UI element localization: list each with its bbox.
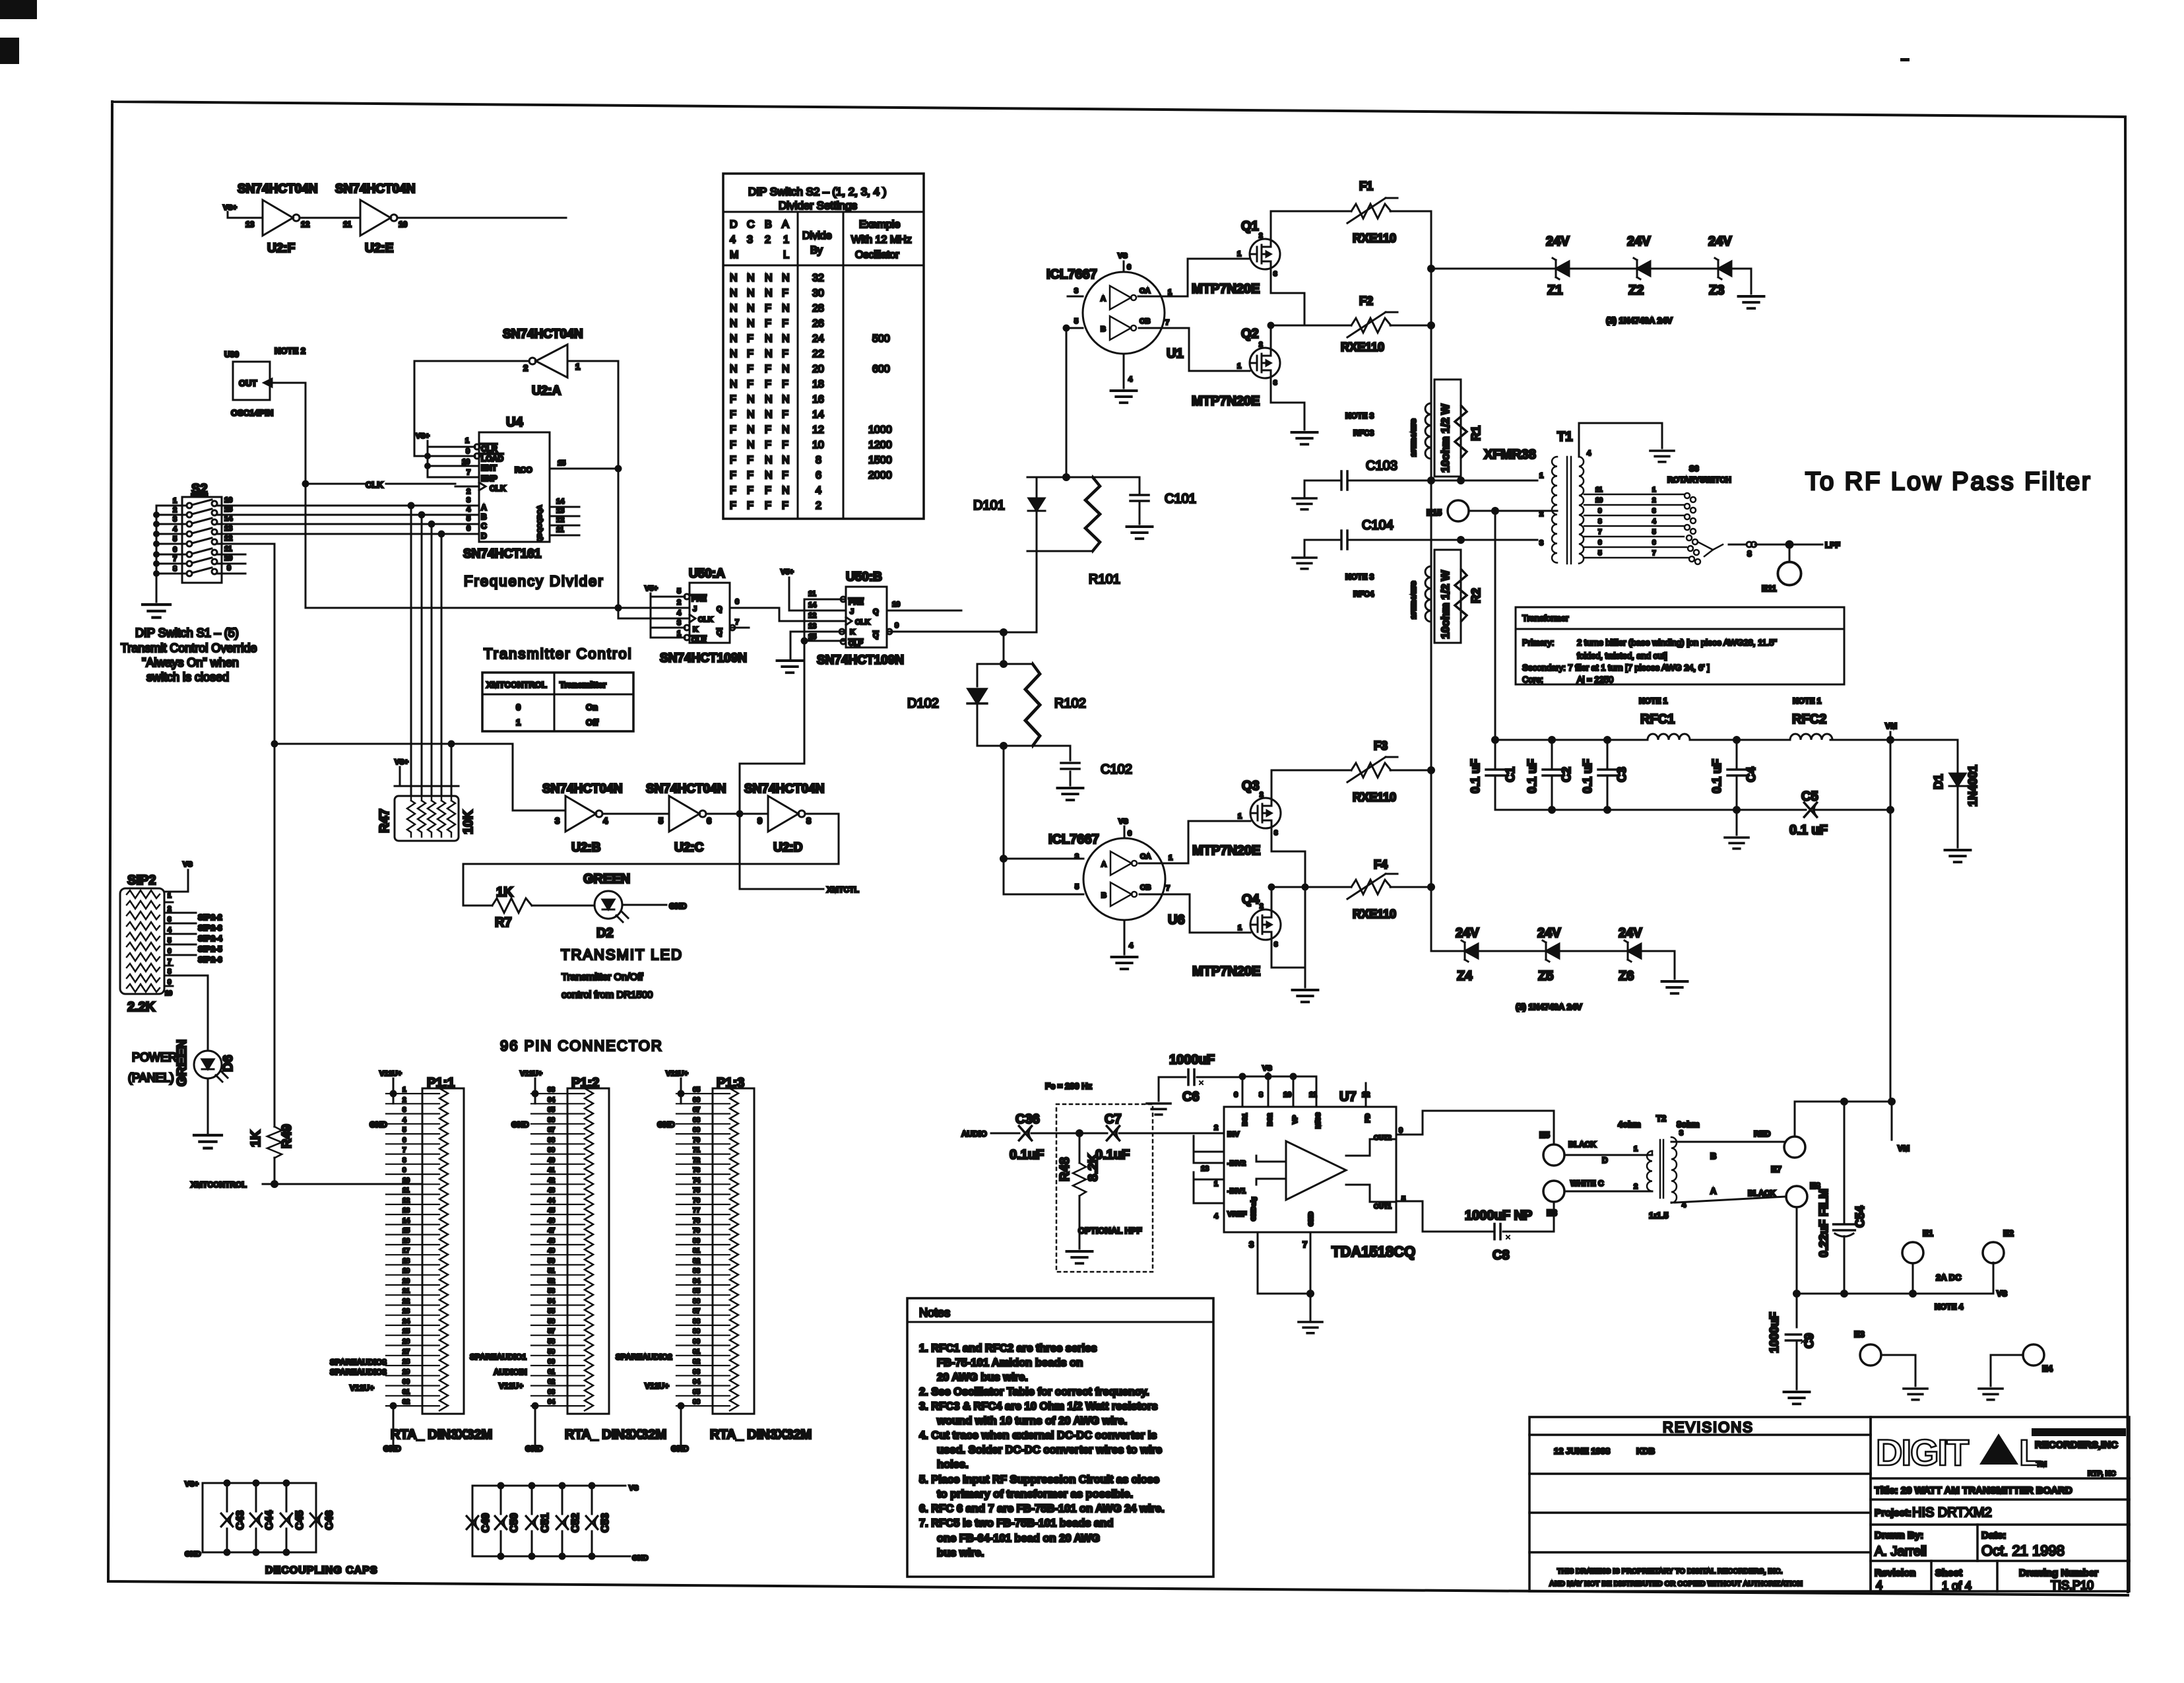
svg-text:3: 3 [1539,539,1543,547]
svg-text:19: 19 [402,1268,410,1275]
svg-text:Z5: Z5 [1538,969,1553,983]
svg-text:N: N [730,379,738,390]
svg-text:VREF: VREF [1227,1210,1247,1218]
svg-text:GNDs/g: GNDs/g [1250,1197,1258,1221]
svg-text:SPAREAUDIO3: SPAREAUDIO3 [330,1368,387,1377]
svg-text:16: 16 [224,496,232,504]
svg-text:90: 90 [693,1338,701,1346]
svg-text:1: 1 [783,234,789,246]
svg-text:SN74HCT04N: SN74HCT04N [542,782,622,796]
svg-text:FB-75-101 Amidon beads on: FB-75-101 Amidon beads on [937,1357,1083,1369]
svg-text:RXE110: RXE110 [1353,907,1396,921]
svg-text:J: J [693,605,697,613]
svg-text:15: 15 [224,506,232,513]
svg-text:4: 4 [1129,942,1134,950]
svg-text:14: 14 [812,409,824,420]
svg-text:R49: R49 [280,1124,294,1148]
svg-text:R47: R47 [377,808,392,833]
svg-text:holes.: holes. [937,1459,969,1470]
svg-text:V12U+: V12U+ [645,1381,669,1391]
svg-text:0: 0 [516,702,521,712]
svg-text:2 turns bifiler (base winding): 2 turns bifiler (base winding) [on piece… [1577,638,1777,647]
svg-text:9: 9 [227,564,231,572]
svg-text:6: 6 [402,1137,406,1144]
U4 ABCD pins [461,506,479,534]
svg-text:10ohm 1/2 W: 10ohm 1/2 W [1439,403,1452,473]
wire OSC out to CLK node [272,383,690,608]
svg-text:V12U+: V12U+ [499,1381,523,1391]
svg-text:U7: U7 [1339,1090,1357,1104]
zener string Z4 Z5 Z6 24V [1431,950,1675,952]
svg-text:12: 12 [808,612,816,620]
svg-text:1: 1 [1238,812,1242,820]
wire U2:A feedback from RCO [569,361,690,618]
svg-text:By: By [810,245,823,256]
svg-text:SIP2-3: SIP2-3 [198,923,222,933]
svg-text:79: 79 [693,1228,701,1235]
svg-text:A: A [481,503,487,512]
svg-text:4: 4 [1214,1212,1219,1220]
svg-text:24V: 24V [1546,234,1570,249]
svg-text:C46: C46 [324,1511,335,1530]
S2 left common bus to ground [156,506,158,602]
svg-text:36: 36 [548,1117,556,1124]
svg-text:F: F [747,364,754,375]
svg-text:A: A [782,219,789,230]
svg-text:C102: C102 [1101,762,1132,777]
svg-text:U30: U30 [224,350,239,359]
svg-text:F: F [747,455,754,466]
svg-text:(PANEL): (PANEL) [128,1071,174,1084]
svg-text:TIS.P10: TIS.P10 [2051,1579,2094,1592]
wire U2:A output to U4 LOAD [414,361,529,456]
svg-text:10: 10 [402,1177,410,1184]
svg-text:used. Solder DC-DC converter: used. Solder DC-DC converter wires to wi… [937,1444,1162,1456]
DIP table data rows [730,273,892,511]
svg-text:bus wire.: bus wire. [937,1547,984,1559]
svg-text:N: N [782,333,790,345]
svg-text:2: 2 [1259,232,1263,240]
svg-text:24V: 24V [1537,926,1561,940]
svg-text:NOTE 3: NOTE 3 [1345,411,1374,420]
U50:B outputs [887,610,1004,632]
svg-text:47: 47 [548,1228,556,1235]
svg-text:2: 2 [1652,497,1656,504]
svg-text:VS+: VS+ [185,1480,199,1488]
svg-text:RFC2: RFC2 [1792,712,1826,727]
svg-text:V12U+: V12U+ [666,1070,688,1078]
svg-text:control from DR1500: control from DR1500 [562,989,653,1001]
svg-text:46: 46 [548,1217,556,1224]
svg-text:Transmit Control Override: Transmit Control Override [121,642,257,655]
svg-text:T1: T1 [1557,430,1572,444]
svg-text:T2: T2 [1656,1113,1666,1123]
svg-text:N: N [765,455,773,466]
svg-text:29: 29 [402,1368,410,1375]
svg-text:4: 4 [402,1117,406,1124]
svg-text:Secondary: 7 filer at 1 turn [: Secondary: 7 filer at 1 turn [7 pieces A… [1522,663,1710,673]
svg-text:9: 9 [466,447,470,455]
svg-text:9: 9 [757,816,762,826]
svg-text:GND: GND [525,1444,543,1453]
svg-text:61: 61 [548,1368,556,1375]
title block [1871,1417,2129,1591]
svg-text:OA: OA [1140,853,1151,861]
svg-text:1: 1 [173,497,177,505]
svg-text:U4: U4 [506,415,523,430]
svg-text:one FB-64-101 bead on 20 AWG: one FB-64-101 bead on 20 AWG [937,1533,1100,1544]
svg-text:72: 72 [693,1157,701,1164]
svg-text:Transmitter Control: Transmitter Control [484,645,632,662]
svg-text:A: A [1101,861,1107,869]
VS output rail [1797,1263,1993,1294]
svg-text:45: 45 [548,1207,556,1214]
svg-text:VS: VS [183,861,193,869]
svg-text:V5+: V5+ [645,585,658,593]
svg-text:E1: E1 [1923,1228,1933,1238]
svg-text:Q: Q [873,608,879,616]
svg-text:F3: F3 [1374,739,1388,752]
svg-text:GND: GND [671,1444,689,1453]
ground under S2 [143,605,170,618]
svg-text:N: N [765,348,773,360]
svg-text:11: 11 [808,590,816,598]
svg-text:F: F [782,348,788,360]
svg-text:F: F [747,500,754,511]
wire VS+ into U4 control pins [428,441,462,477]
transformer spec table [1516,607,1844,684]
svg-text:C2: C2 [1560,767,1573,782]
svg-text:1. RFC1 and RFC2 are three se: 1. RFC1 and RFC2 are three series [919,1342,1097,1354]
svg-text:77: 77 [693,1207,701,1214]
scanner artifact blobs top-left [0,0,37,19]
svg-text:12: 12 [812,424,824,436]
svg-text:RFC1: RFC1 [1640,712,1675,727]
svg-text:20 AWG bus wire.: 20 AWG bus wire. [937,1371,1028,1383]
svg-text:0.22uF FILM: 0.22uF FILM [1817,1189,1830,1257]
svg-text:Q3: Q3 [1242,779,1260,793]
svg-text:21: 21 [402,1288,410,1295]
svg-text:AUDIOIN: AUDIOIN [494,1368,527,1377]
svg-text:32: 32 [402,1399,410,1406]
wire D102 to C102 and U6 [1004,746,1070,890]
zener Z2 [1634,258,1650,279]
svg-text:LPF: LPF [1825,541,1840,550]
svg-text:KDB: KDB [1636,1446,1655,1456]
svg-text:6: 6 [707,816,711,826]
svg-text:10: 10 [399,220,408,229]
svg-text:ROTARYSWITCH: ROTARYSWITCH [1667,475,1731,484]
svg-text:81: 81 [693,1247,701,1255]
svg-text:4: 4 [466,506,471,513]
svg-text:2. See Oscillator Table for c: 2. See Oscillator Table for correct freq… [919,1386,1149,1398]
svg-text:91: 91 [693,1348,701,1356]
svg-text:C: C [481,521,487,531]
svg-text:N: N [782,394,790,405]
svg-text:1: 1 [575,362,580,372]
wire E7 up to VM node [1795,1102,1892,1137]
svg-text:VM: VM [1898,1144,1910,1153]
svg-text:89: 89 [693,1328,701,1335]
svg-text:1: 1 [465,437,469,445]
svg-text:SIP2-2: SIP2-2 [198,913,222,922]
svg-text:31: 31 [402,1389,410,1396]
svg-text:24V: 24V [1456,926,1479,940]
svg-text:ENP: ENP [481,474,498,483]
wire OB to Q2 gate [1139,328,1250,371]
svg-text:M: M [730,249,738,261]
svg-text:B: B [1710,1151,1716,1161]
svg-text:2: 2 [402,1096,406,1104]
svg-text:F: F [782,379,788,390]
resistor R49 1K [274,1126,276,1128]
svg-text:DECOUPLING CAPS: DECOUPLING CAPS [265,1565,378,1576]
svg-text:14: 14 [402,1217,410,1224]
svg-text:10: 10 [165,990,173,997]
svg-text:V12U+: V12U+ [350,1383,374,1393]
svg-text:U50:A: U50:A [689,567,725,581]
svg-text:7: 7 [1302,1239,1307,1249]
svg-text:13: 13 [556,507,564,515]
svg-text:MTP7N20E: MTP7N20E [1192,394,1260,409]
LC filter top rail [1495,739,1958,741]
svg-text:D1: D1 [1932,774,1945,789]
svg-text:76: 76 [693,1197,701,1204]
svg-text:22: 22 [812,348,824,360]
svg-text:8: 8 [173,565,177,573]
svg-text:F4: F4 [1374,858,1388,871]
svg-text:SN74HCT04N: SN74HCT04N [744,782,824,796]
ground after Z6 [1674,951,1676,979]
svg-text:INV: INV [1227,1131,1240,1138]
svg-text:0.1uF: 0.1uF [1095,1148,1130,1162]
svg-text:N: N [730,303,738,314]
svg-text:C104: C104 [1362,518,1394,533]
svg-text:10K: 10K [461,810,476,834]
svg-text:F: F [747,485,754,496]
svg-text:N: N [747,440,755,451]
svg-text:8: 8 [1747,549,1752,558]
svg-text:6: 6 [1128,830,1132,838]
svg-text:MTP7N20E: MTP7N20E [1192,282,1260,296]
svg-text:D2: D2 [596,926,614,940]
svg-text:3: 3 [677,619,681,627]
svg-text:F: F [782,470,788,481]
svg-text:CLP: CLP [849,640,863,647]
svg-text:N: N [747,409,755,420]
svg-text:69: 69 [693,1127,701,1134]
svg-text:2: 2 [1214,1124,1218,1132]
svg-text:1: 1 [1169,854,1172,862]
svg-text:C101: C101 [1165,492,1196,506]
svg-text:7. RFC5 is two FB-75B-101 bea: 7. RFC5 is two FB-75B-101 beads and [919,1517,1113,1529]
svg-text:To RF Low Pass Filter: To RF Low Pass Filter [1805,468,2092,496]
svg-text:Divide: Divide [802,230,832,242]
svg-text:11: 11 [402,1187,410,1195]
svg-text:13: 13 [245,220,255,229]
svg-text:24V: 24V [1619,926,1642,940]
svg-text:15: 15 [558,459,565,467]
svg-text:Title: 20 WATT AM TRANSMITTE: Title: 20 WATT AM TRANSMITTER BOARD [1875,1485,2072,1496]
svg-text:4. Cut trace when external DC: 4. Cut trace when external DC-DC convert… [919,1430,1157,1441]
wire Q1 drain to F1 [1271,211,1351,239]
svg-text:62: 62 [548,1379,556,1386]
svg-text:48: 48 [548,1237,556,1245]
svg-text:PRE: PRE [849,599,864,607]
svg-text:83: 83 [693,1268,701,1275]
svg-text:F: F [765,440,771,451]
svg-text:2000: 2000 [868,470,892,481]
svg-text:96: 96 [693,1399,701,1406]
svg-text:4: 4 [168,927,172,934]
svg-text:4: 4 [677,609,682,617]
svg-text:to primary of transformer as p: to primary of transformer as possible. [937,1488,1133,1500]
svg-text:R101: R101 [1089,572,1120,587]
svg-text:3. RFC3 & RFC4 are 10 Ohm 1/2: 3. RFC3 & RFC4 are 10 Ohm 1/2 Watt resis… [919,1401,1158,1412]
svg-text:TRANSMIT LED: TRANSMIT LED [561,946,683,963]
svg-text:65: 65 [693,1086,701,1094]
svg-text:14: 14 [224,515,233,523]
svg-text:F: F [782,500,788,511]
svg-text:0.1uF: 0.1uF [1010,1148,1044,1162]
svg-text:9: 9 [402,1167,406,1174]
svg-text:D6: D6 [221,1055,236,1072]
wire OA to Q3 gate [1139,821,1250,863]
svg-text:POWER: POWER [132,1051,177,1064]
svg-text:F: F [765,424,771,436]
svg-text:CLR: CLR [691,636,707,644]
svg-text:10ohm 1/2 W: 10ohm 1/2 W [1439,570,1452,639]
svg-text:0.1 uF: 0.1 uF [1581,759,1594,793]
svg-text:N: N [782,455,790,466]
DIGITAL logo [1876,1428,2126,1478]
svg-text:10: 10 [224,554,232,562]
wire U2:D output loop to R7 [463,814,839,906]
zener Z6 [1624,940,1641,962]
svg-text:VS+: VS+ [416,432,430,440]
svg-text:1000uF NP: 1000uF NP [1465,1208,1532,1223]
svg-text:12 JUNE 1998: 12 JUNE 1998 [1554,1446,1610,1456]
svg-text:Z4: Z4 [1457,969,1473,983]
svg-text:N: N [730,318,738,329]
svg-text:Drawing Number: Drawing Number [2019,1567,2098,1579]
svg-text:RCO: RCO [515,465,532,475]
svg-text:2.2K: 2.2K [127,1000,156,1014]
svg-text:50: 50 [548,1257,556,1265]
svg-text:B: B [765,219,772,230]
svg-text:CLK: CLK [698,616,713,624]
svg-text:OB: OB [1140,884,1151,892]
svg-text:Q: Q [717,629,723,637]
svg-text:RTP, NC: RTP, NC [2088,1470,2116,1478]
svg-text:F: F [730,470,736,481]
svg-text:7: 7 [1165,319,1169,327]
svg-text:8: 8 [168,968,172,975]
svg-text:12: 12 [556,516,564,524]
svg-text:32: 32 [812,273,824,284]
svg-text:F: F [765,364,771,375]
svg-text:3: 3 [1274,941,1278,948]
svg-text:500: 500 [872,333,890,345]
svg-text:SN74HCT04N: SN74HCT04N [503,327,583,341]
svg-text:BLACK: BLACK [1568,1140,1596,1149]
ground at C4 [1736,810,1738,835]
svg-text:NOTE 1: NOTE 1 [1793,696,1822,706]
svg-text:11: 11 [556,526,564,534]
svg-text:34: 34 [548,1096,556,1104]
svg-text:RXE110: RXE110 [1353,791,1396,804]
svg-text:30: 30 [812,288,824,299]
svg-text:MTP7N20E: MTP7N20E [1192,964,1260,979]
zener string Z1 Z2 Z3 24V [1431,268,1751,270]
svg-text:1: 1 [168,892,172,900]
svg-text:-INV2: -INV2 [1227,1160,1246,1168]
svg-text:5: 5 [466,515,470,523]
svg-text:F: F [765,485,771,496]
svg-text:U2:B: U2:B [571,841,600,855]
svg-text:0.1 uF: 0.1 uF [1789,823,1828,838]
wire U2:E output [397,217,566,219]
svg-text:-INV1: -INV1 [1227,1187,1246,1195]
svg-text:Q: Q [717,605,723,613]
svg-text:8: 8 [1598,518,1602,525]
svg-text:VS+: VS+ [395,758,408,766]
svg-text:N: N [765,288,773,299]
svg-text:11: 11 [224,545,232,553]
T1 secondary taps to rotary switch [1584,494,1689,558]
svg-text:4: 4 [1587,449,1591,457]
svg-text:On: On [586,702,598,712]
svg-text:folded, twisted, and cut]: folded, twisted, and cut] [1577,651,1667,661]
svg-text:1200: 1200 [868,440,892,451]
svg-text:RECORDERS,INC: RECORDERS,INC [2035,1439,2118,1451]
wire OUT2 to E5 [1396,1111,1554,1144]
svg-text:Z2: Z2 [1628,283,1644,298]
svg-text:9: 9 [895,622,899,630]
svg-text:(3) 1N4749A 24V: (3) 1N4749A 24V [1606,315,1673,325]
svg-text:F: F [782,288,788,299]
svg-text:N: N [730,273,738,284]
svg-text:GND: GND [657,1120,675,1129]
switch common to LPF [1729,544,1822,546]
svg-text:10: 10 [462,458,470,466]
svg-text:F: F [730,424,736,436]
svg-text:DIP Switch S1 – (5): DIP Switch S1 – (5) [135,626,239,640]
svg-text:GREEN: GREEN [583,872,630,886]
svg-text:68: 68 [693,1117,701,1124]
svg-text:Date:: Date: [1981,1530,2007,1541]
svg-text:V5+: V5+ [781,568,794,576]
svg-text:20: 20 [812,364,824,375]
svg-text:24: 24 [402,1318,410,1325]
svg-text:F: F [765,303,771,314]
svg-text:11: 11 [1595,486,1603,494]
svg-text:C52: C52 [570,1513,581,1533]
svg-text:56: 56 [548,1318,556,1325]
svg-text:2: 2 [1260,903,1264,910]
svg-text:Oct. 21 1998: Oct. 21 1998 [1981,1542,2065,1559]
svg-text:2: 2 [1634,1183,1638,1191]
svg-text:6: 6 [735,598,739,606]
svg-text:"Always On" when: "Always On" when [142,656,239,669]
svg-text:7: 7 [735,618,739,626]
svg-text:C53: C53 [600,1513,611,1533]
svg-text:3: 3 [555,816,560,826]
svg-text:12: 12 [224,535,232,543]
svg-text:52: 52 [548,1278,556,1285]
U7 amp triangle [1286,1141,1346,1200]
svg-text:1500: 1500 [868,455,892,466]
